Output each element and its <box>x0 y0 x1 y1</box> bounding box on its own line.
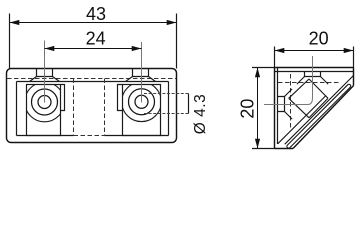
side view: center diamond rib bottom-left edge <box>289 98 309 118</box>
side view: center diamond rib top-left edge <box>289 79 309 98</box>
side view: hidden dashed line below top wall <box>278 82 340 84</box>
side view: left hole center line <box>264 104 308 106</box>
side view: top boss right flare <box>321 77 329 85</box>
side view: top boss left flare <box>297 77 305 85</box>
front view: inner body top edge <box>17 81 169 83</box>
dimension 43: right extension line <box>176 14 178 69</box>
dimension 20 left: bottom extension line <box>252 148 275 150</box>
side view: bottom end face <box>275 148 294 150</box>
side view: center diamond rib bottom-right edge <box>309 98 328 118</box>
front view: outer cap rounded outline <box>7 69 177 143</box>
side view: left inner groove line <box>277 68 279 145</box>
front view: hidden edge dashed line <box>7 78 176 80</box>
dimension 20 top: left extension line <box>274 47 276 68</box>
front view: right hole center line / 24 extension line <box>141 42 143 103</box>
front view: left hole center line / 24 extension line <box>44 41 46 103</box>
front view: left housing side tab <box>61 85 65 111</box>
side view: top inner groove line <box>275 71 354 73</box>
side view: center diamond rib top-right edge <box>309 79 328 98</box>
dimension 20 left: dimension line <box>257 68 259 149</box>
side view: left outer edge <box>274 68 276 149</box>
front view: hidden dashed vertical right of center slot <box>104 79 106 136</box>
side view: right end face <box>353 68 355 86</box>
front view: right housing side tab <box>118 85 123 111</box>
side view: diagonal inner wall line lower <box>278 96 326 144</box>
front view: right screw boss rectangle <box>133 69 149 77</box>
svg-text:Ø 4.3: Ø 4.3 <box>192 94 209 134</box>
front view: inner body bottom edge left solid segment <box>17 135 74 137</box>
dimension 20 left: top extension line <box>252 67 275 69</box>
hole diameter: connector line <box>188 94 190 114</box>
side view: left boss upper flare <box>285 89 293 97</box>
front view: hidden dashed vertical left of center slot <box>73 79 75 136</box>
side view: top hole center line <box>312 56 314 99</box>
dimension 24: dimension line <box>45 48 142 50</box>
side view: left screw boss <box>278 97 285 112</box>
front view: left screw boss rectangle <box>37 69 53 77</box>
front view: left hole bore circle <box>38 96 51 109</box>
side view: centerline connecting arc <box>308 99 313 105</box>
side view: hypotenuse outer edge <box>293 86 354 149</box>
side view: top outer edge <box>275 67 354 69</box>
hole diameter: upper dashed extension line <box>144 93 189 95</box>
front view: left hole large boss circle (clipped by housing box) <box>25 82 65 122</box>
svg-text:43: 43 <box>86 4 106 24</box>
front view: right hole large boss circle (clipped by housing box) <box>122 82 162 122</box>
front view: right boss left flare <box>126 77 133 82</box>
side view: hypotenuse groove slot outline <box>286 84 351 149</box>
svg-text:24: 24 <box>86 28 106 48</box>
dimension 20 top: right arrowhead <box>344 48 354 53</box>
dimension 20 left: bottom arrowhead <box>255 139 260 149</box>
dimension 43: right arrowhead <box>167 20 177 25</box>
front view: right hole bore circle <box>135 95 148 108</box>
hole diameter: lower dashed extension line <box>144 113 189 115</box>
dimension 43: left extension line <box>9 14 11 69</box>
front view: right hole counterbore circle <box>129 89 155 115</box>
front view: left hole housing box <box>27 85 61 136</box>
front view: left boss left flare <box>30 77 37 82</box>
front view: inner body bottom edge middle dashed segment <box>74 135 105 137</box>
front view: left boss right flare <box>53 77 60 82</box>
dimension 24: left arrowhead <box>45 46 55 51</box>
dimension 43: left arrowhead <box>10 20 20 25</box>
side view: diagonal inner wall line upper <box>285 76 354 145</box>
svg-text:20: 20 <box>309 28 329 48</box>
side view: hidden dashed line right of left wall <box>290 74 292 130</box>
front view: right boss right flare <box>149 77 156 82</box>
dimension 24: right arrowhead <box>132 46 142 51</box>
side view: left boss lower flare <box>285 112 293 120</box>
front view: right hole housing box <box>123 85 161 136</box>
dimension 20 top: left arrowhead <box>275 48 285 53</box>
front view: inner body left edge <box>16 82 18 136</box>
side view: top screw boss <box>305 72 321 77</box>
front view: left hole counterbore circle <box>32 89 58 115</box>
svg-text:20: 20 <box>238 99 258 119</box>
dimension 20 top: dimension line <box>275 50 354 52</box>
front view: inner body right edge <box>168 82 170 136</box>
dimension 43: dimension line <box>10 22 177 24</box>
dimension 20 left: top arrowhead <box>255 68 260 78</box>
dimension 20 top: right extension line <box>353 47 355 68</box>
front view: inner body bottom edge right solid segment <box>105 135 169 137</box>
